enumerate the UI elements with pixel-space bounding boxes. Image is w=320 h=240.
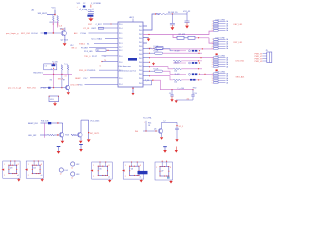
- component LS3: [71, 172, 75, 176]
- wire pin43 stub: [143, 42, 147, 44]
- component U5 outer wiring: [92, 162, 113, 179]
- red mark: [216, 69, 218, 71]
- svg-text:P3.1T: P3.1T: [92, 56, 98, 58]
- power symbol: [175, 147, 177, 151]
- IC U1 microcontroller body: [118, 22, 143, 87]
- wire collector: [80, 120, 82, 133]
- svg-text:KY_IN: KY_IN: [83, 28, 89, 30]
- left pin arrow: [122, 169, 125, 171]
- pin stubs U7: [161, 162, 163, 167]
- resistor R13: [71, 134, 76, 136]
- U1 highlighted value W78E052: [128, 58, 137, 61]
- wire rail: [43, 73, 72, 75]
- svg-text:BZ_OUT1: BZ_OUT1: [90, 133, 100, 135]
- node junction: [53, 87, 54, 88]
- svg-text:U13 CON6: U13 CON6: [216, 71, 225, 73]
- component LS1: [59, 168, 63, 172]
- wire pin row 7: [143, 75, 150, 77]
- svg-text:P0.2: P0.2: [139, 50, 142, 52]
- svg-text:INT_0: INT_0: [71, 48, 77, 50]
- diode D3: [48, 122, 51, 124]
- wire: [181, 79, 202, 81]
- wire pin row 6: [143, 70, 150, 72]
- wire: [41, 32, 62, 34]
- wire row7 jog to module3 zigzag: [150, 76, 174, 80]
- resistor R2: [57, 16, 59, 22]
- node junction: [155, 13, 156, 14]
- wire row1 jog to module1: [163, 49, 173, 51]
- svg-text:C_x 104: C_x 104: [177, 88, 184, 90]
- node junction: [172, 13, 173, 14]
- wire: [176, 130, 178, 140]
- ground: [160, 137, 163, 140]
- svg-text:KEY_LN1: KEY_LN1: [234, 24, 244, 26]
- component U4 body: [32, 165, 40, 173]
- ground: [53, 103, 57, 106]
- wire: [171, 25, 173, 27]
- wire: [192, 96, 194, 100]
- wire: [184, 37, 188, 39]
- svg-text:P0.2: P0.2: [139, 74, 142, 76]
- svg-text:P0.2: P0.2: [139, 66, 142, 68]
- svg-text:12: 12: [71, 178, 73, 180]
- transistor Q3: [59, 133, 64, 138]
- svg-text:VCC_33: VCC_33: [183, 11, 190, 13]
- resistor RP1 box: [177, 36, 184, 39]
- svg-text:8: 8: [109, 165, 110, 167]
- wire row5 jog to module2: [150, 67, 174, 69]
- ground: [109, 178, 111, 181]
- wire: [148, 38, 150, 39]
- node circle: [189, 62, 191, 64]
- component U2 box: [49, 96, 59, 102]
- pin stubs: [99, 162, 101, 166]
- node junction: [53, 63, 54, 64]
- svg-text:P1.1A: P1.1A: [81, 32, 87, 35]
- component U6 outer wiring: [123, 162, 144, 179]
- wire red stub: [90, 5, 92, 8]
- svg-text:U5: U5: [99, 168, 101, 170]
- svg-text:SW_KEY1: SW_KEY1: [38, 13, 49, 15]
- svg-text:R7: R7: [63, 80, 65, 82]
- component U7 outer wiring: [155, 162, 173, 180]
- svg-text:x1: x1: [17, 175, 19, 177]
- svg-text:U6: U6: [131, 168, 133, 170]
- node junction: [204, 74, 206, 76]
- svg-text:C_RST: C_RST: [96, 24, 103, 26]
- U1 bottom pin GND wire: [132, 87, 134, 93]
- svg-text:R14: R14: [148, 122, 151, 124]
- wire: [106, 49, 118, 51]
- svg-text:1: 1: [156, 167, 157, 169]
- node junction: [53, 32, 54, 33]
- resistor module zigzag: [173, 79, 181, 81]
- svg-text:ADI: ADI: [74, 32, 78, 35]
- power symbol: [163, 146, 167, 148]
- capacitor marks: [192, 50, 194, 52]
- wire to connector: [199, 73, 213, 75]
- resistor RN1: [155, 48, 163, 50]
- wire pin row 4: [143, 61, 150, 63]
- node junction: [198, 68, 200, 70]
- power arrow: [147, 39, 151, 42]
- node junction: [149, 53, 150, 54]
- node junction: [57, 122, 58, 123]
- wire pin row 5: [143, 66, 150, 68]
- resistor R5: [96, 49, 106, 52]
- component U3 body: [9, 165, 17, 173]
- node junction: [149, 62, 150, 63]
- ground: [170, 99, 173, 102]
- svg-text:P1.4: P1.4: [119, 28, 122, 30]
- wire module top row: [173, 50, 186, 52]
- wire: [47, 14, 55, 16]
- diode D2: [48, 87, 51, 89]
- ground: [67, 92, 70, 95]
- wire: [186, 23, 188, 26]
- ground: [175, 139, 178, 142]
- node junction: [198, 60, 200, 62]
- svg-text:R 472: R 472: [175, 50, 180, 52]
- svg-text:P1.2: P1.2: [119, 50, 122, 52]
- node junction: [53, 68, 54, 69]
- svg-text:U11 CON6: U11 CON6: [216, 37, 225, 39]
- wire: [105, 38, 118, 40]
- svg-text:R6 10K 1%: R6 10K 1%: [168, 12, 178, 14]
- node junction row24: [110, 23, 111, 24]
- svg-text:SEG_A01: SEG_A01: [236, 76, 246, 79]
- svg-text:P3.2INT: P3.2INT: [81, 48, 89, 50]
- node junction: [53, 23, 54, 24]
- wire: [54, 102, 56, 103]
- wire: [102, 55, 119, 57]
- svg-text:P1.0: P1.0: [119, 56, 122, 58]
- capacitor C2: [88, 11, 94, 13]
- wire: [53, 70, 55, 75]
- wire: [181, 68, 202, 70]
- wire: [98, 27, 118, 29]
- svg-text:VC1: VC1: [77, 3, 81, 5]
- wire U1 top pin: [132, 19, 134, 23]
- solid value mark: [83, 5, 86, 7]
- node junction: [149, 48, 150, 49]
- svg-text:U4: U4: [33, 167, 35, 169]
- component inline row28: [99, 27, 104, 29]
- wire: [52, 21, 54, 33]
- ground: [61, 141, 65, 144]
- svg-text:c1_in cap_vcc x1: c1_in cap_vcc x1: [79, 9, 94, 11]
- svg-text:P0.6: P0.6: [139, 62, 142, 64]
- ground: [41, 177, 43, 180]
- svg-text:2: 2: [28, 175, 29, 177]
- wire drop1: [171, 90, 173, 95]
- svg-text:L2: L2: [164, 121, 166, 123]
- node junction: [200, 57, 202, 59]
- svg-text:RST_LN1: RST_LN1: [27, 88, 37, 90]
- svg-text:U7: U7: [161, 171, 163, 173]
- resistor R6: [156, 13, 166, 15]
- wire rail right: [88, 120, 90, 139]
- svg-text:P0.6: P0.6: [139, 46, 142, 48]
- ground rail: [87, 139, 91, 142]
- wire: [102, 61, 118, 63]
- svg-text:KEY1: KEY1: [92, 28, 97, 30]
- node junction: [149, 71, 150, 72]
- svg-text:P1.6: P1.6: [119, 38, 122, 40]
- power arrow row4: [153, 61, 155, 64]
- node junction: [202, 48, 204, 50]
- component U6 body: [130, 166, 139, 175]
- svg-text:1: 1: [28, 164, 29, 166]
- svg-text:P0.6: P0.6: [139, 54, 142, 56]
- svg-text:P0.2: P0.2: [139, 58, 142, 60]
- svg-text:104: 104: [174, 70, 177, 72]
- wire L to lower net: [154, 80, 193, 90]
- component LS2: [71, 162, 75, 166]
- svg-text:P1.7: P1.7: [119, 47, 122, 49]
- transistor Q1: [61, 31, 66, 36]
- svg-text:P0.2: P0.2: [139, 26, 142, 28]
- ground: [79, 141, 83, 144]
- svg-text:P1.6: P1.6: [119, 62, 122, 64]
- svg-text:RST_LN1: RST_LN1: [234, 42, 244, 44]
- pin stubs: [10, 161, 12, 165]
- svg-text:P3.6: P3.6: [79, 85, 83, 87]
- node junction: [149, 66, 150, 67]
- wire: [94, 43, 118, 45]
- node circle: [189, 73, 191, 75]
- capacitor marks: [192, 62, 194, 64]
- wire emitter: [64, 36, 66, 44]
- red mark: [216, 53, 218, 55]
- node junction: [88, 132, 89, 133]
- capacitor C10: [191, 94, 194, 96]
- svg-text:VCC: VCC: [52, 8, 57, 10]
- svg-text:Q5: Q5: [154, 128, 156, 130]
- wire: [81, 119, 89, 121]
- svg-text:8: 8: [41, 164, 42, 166]
- node junction: [57, 134, 58, 135]
- left pin arrow: [2, 169, 5, 171]
- component U3 outer wiring: [3, 161, 20, 178]
- wire branch: [173, 35, 177, 38]
- wire: [90, 17, 92, 19]
- component box row47: [156, 47, 163, 50]
- svg-text:2: 2: [125, 176, 126, 178]
- ground: [63, 43, 67, 46]
- svg-text:BEEP: BEEP: [75, 78, 81, 80]
- node circle: [189, 50, 191, 52]
- wire: [181, 60, 202, 62]
- wire pin26 stub: [143, 25, 147, 27]
- svg-text:pwr_keyin_g: pwr_keyin_g: [6, 32, 19, 35]
- capacitor C9a: [170, 94, 173, 96]
- svg-text:VCC_BZ5: VCC_BZ5: [90, 120, 100, 122]
- svg-text:P0.6: P0.6: [139, 38, 142, 40]
- wire pin row 2: [143, 52, 150, 54]
- wire emitter: [62, 137, 64, 141]
- wire: [145, 121, 147, 131]
- svg-text:LS3: LS3: [76, 174, 79, 176]
- node junction: [149, 57, 150, 58]
- capacitor C4: [170, 22, 175, 24]
- svg-text:U12 CON6: U12 CON6: [216, 55, 225, 57]
- svg-text:U10 CON6: U10 CON6: [216, 19, 225, 21]
- pin stubs: [131, 162, 133, 166]
- left pin arrow: [91, 169, 94, 171]
- svg-text:C6 104: C6 104: [31, 33, 38, 35]
- svg-text:GND: GND: [97, 3, 102, 5]
- svg-text:RX0: RX0: [193, 88, 197, 90]
- wire: [89, 32, 119, 34]
- svg-text:3: 3: [51, 68, 52, 70]
- wire: [263, 55, 267, 57]
- svg-text:1 2: 1 2: [45, 65, 47, 67]
- wire: [143, 130, 158, 132]
- svg-text:8 bit fram ram: 8 bit fram ram: [119, 65, 132, 68]
- svg-text:P1.6: P1.6: [119, 78, 122, 80]
- svg-text:LED_IN2: LED_IN2: [28, 135, 37, 137]
- wire: [263, 60, 267, 62]
- wire: [166, 13, 187, 15]
- node junction: [171, 89, 172, 90]
- svg-text:XTAL1: XTAL1: [79, 43, 86, 46]
- component U5 body: [98, 166, 107, 175]
- capacitor marks B: [190, 79, 192, 81]
- wire right branch: [176, 122, 178, 128]
- wire: [186, 12, 188, 22]
- svg-text:P1.6: P1.6: [119, 70, 122, 72]
- node junction: [176, 125, 177, 126]
- node junction: [54, 14, 55, 15]
- wire: [51, 122, 62, 124]
- svg-text:T1_K: T1_K: [57, 25, 63, 27]
- svg-text:P3.0RXD: P3.0RXD: [87, 70, 96, 72]
- svg-text:8: 8: [140, 165, 141, 167]
- node junction: [145, 130, 146, 131]
- ground below U1: [132, 93, 135, 95]
- svg-text:C2: C2: [83, 3, 85, 5]
- ground: [171, 27, 175, 30]
- svg-text:P1.0: P1.0: [119, 24, 122, 26]
- svg-text:x1: x1: [108, 177, 110, 179]
- svg-text:P0.3: P0.3: [139, 83, 142, 85]
- wire from pin 30: [143, 14, 160, 30]
- svg-text:PWR_V4: PWR_V4: [255, 61, 263, 63]
- svg-text:P3.3_LED: P3.3_LED: [84, 51, 93, 53]
- wire: [54, 10, 56, 16]
- wire: [41, 122, 49, 124]
- pin dots top U7: [162, 161, 163, 162]
- svg-text:x1: x1: [41, 175, 43, 177]
- resistor module zigzag: [173, 60, 181, 62]
- resistor RP2 box: [188, 36, 195, 39]
- svg-text:1: 1: [93, 165, 94, 167]
- wire long net to CON1: [143, 31, 214, 34]
- ground: [18, 177, 20, 180]
- svg-text:R6: R6: [50, 80, 52, 82]
- left pin arrow: [25, 169, 28, 171]
- ground: [170, 180, 172, 181]
- svg-text:R 472: R 472: [175, 74, 180, 76]
- svg-text:P0.6: P0.6: [139, 30, 142, 32]
- wire: [40, 134, 48, 136]
- svg-text:P1.1: P1.1: [119, 33, 122, 35]
- node junction: [152, 80, 153, 81]
- resistor RN2: [155, 52, 163, 54]
- svg-text:104: 104: [174, 82, 177, 84]
- wire: [263, 53, 267, 55]
- node junction: [199, 62, 201, 64]
- wire pink row48: [163, 48, 214, 50]
- wire bottom join: [176, 99, 193, 101]
- svg-text:KEY_LN1: KEY_LN1: [21, 33, 31, 35]
- wire: [44, 123, 46, 138]
- node junction: [148, 34, 150, 36]
- node junction: [149, 75, 150, 76]
- wire row2: [163, 52, 202, 54]
- svg-text:LS1: LS1: [65, 170, 68, 172]
- wire module top row: [173, 62, 186, 64]
- svg-text:RXD_IN: RXD_IN: [79, 70, 87, 72]
- wire drop2: [192, 90, 194, 95]
- transistor Q5: [158, 129, 163, 134]
- wire collector: [64, 28, 66, 31]
- svg-text:1: 1: [125, 165, 126, 167]
- wire pin row9 bend: [143, 81, 152, 85]
- wire: [171, 96, 173, 99]
- svg-text:pwr_rst_in_gd: pwr_rst_in_gd: [8, 87, 22, 90]
- wire pin row 1: [143, 48, 150, 50]
- wire emitter Q4: [80, 137, 82, 141]
- node junction: [198, 37, 200, 39]
- node junction: [53, 74, 54, 75]
- node junction: [199, 74, 201, 76]
- svg-text:R_10K: R_10K: [52, 61, 58, 63]
- wire: [162, 121, 177, 123]
- svg-text:t1: t1: [100, 65, 101, 68]
- svg-text:P1.4: P1.4: [119, 84, 122, 86]
- svg-text:X1: X1: [87, 44, 89, 46]
- wire row3 to CON_LED: [150, 57, 214, 59]
- svg-text:TXD_0: TXD_0: [84, 56, 91, 58]
- svg-text:P1.3: P1.3: [119, 43, 122, 45]
- svg-text:12: 12: [60, 174, 62, 176]
- svg-text:R 472: R 472: [175, 63, 180, 65]
- svg-text:P0.6: P0.6: [139, 70, 142, 72]
- resistor module zigzag: [173, 68, 181, 70]
- svg-text:U3: U3: [10, 167, 12, 169]
- wire: [53, 74, 55, 87]
- wire to CON2: [209, 38, 214, 43]
- svg-text:SW_RST1: SW_RST1: [33, 73, 43, 75]
- capacitor C9: [175, 127, 179, 129]
- wire pin37 stub: [143, 37, 149, 39]
- svg-text:8: 8: [18, 164, 19, 166]
- svg-text:LS2: LS2: [76, 164, 79, 166]
- svg-text:T4_CTRL: T4_CTRL: [143, 118, 153, 120]
- pin stubs: [33, 161, 35, 165]
- svg-text:T0: T0: [104, 60, 106, 62]
- wire: [41, 87, 66, 89]
- svg-text:X2_C XTAL2: X2_C XTAL2: [91, 38, 102, 41]
- wire emitter: [68, 90, 70, 92]
- svg-text:VO_5: VO_5: [179, 126, 184, 128]
- node junction: [198, 79, 200, 81]
- svg-text:LED_R01: LED_R01: [236, 60, 246, 62]
- wire collector: [62, 123, 64, 133]
- wire collector: [161, 122, 163, 129]
